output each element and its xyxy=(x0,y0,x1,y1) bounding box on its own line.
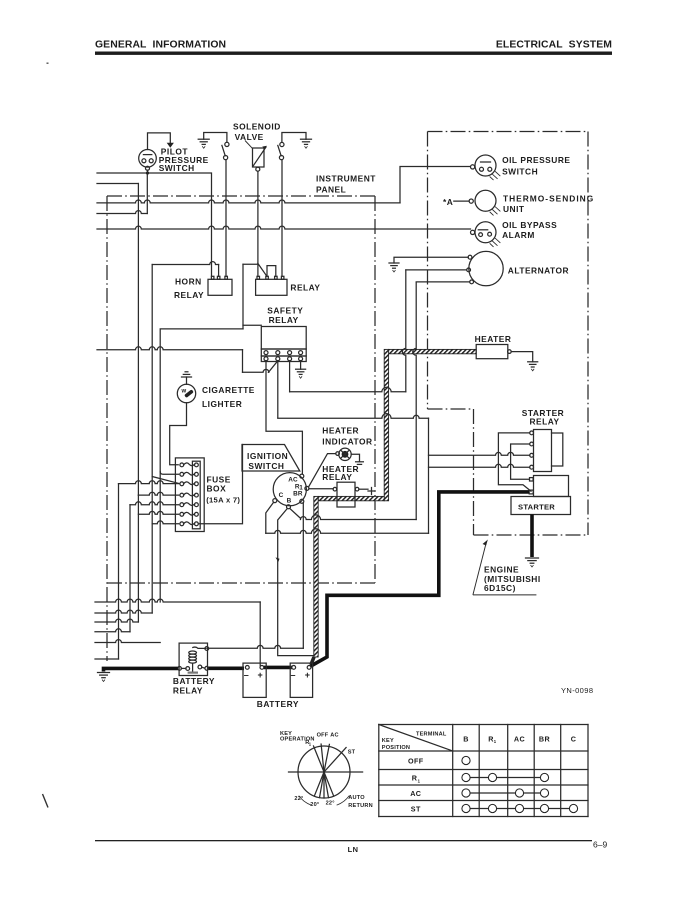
wire alternator top to ground xyxy=(394,257,468,263)
thermo-sending unit xyxy=(443,190,594,215)
svg-text:CIGARETTE: CIGARETTE xyxy=(202,385,255,395)
wire t4 branch xyxy=(429,464,530,467)
table contacts OFF row xyxy=(462,756,470,764)
svg-text:AC: AC xyxy=(410,789,421,798)
wire S2 stem down to relay pin 4 xyxy=(281,160,283,277)
wire relay pin1 junction + diagonal to pin2 + jumper pin2-pin3 xyxy=(243,263,276,276)
svg-text:STARTER: STARTER xyxy=(518,502,555,511)
wire safety b1 to ignition AC terminal xyxy=(266,361,302,474)
hatched cable end into battery2 + terminal xyxy=(311,657,314,665)
instrument panel boundary (chain line box) xyxy=(107,196,375,661)
wire fuse row3 diagonal feed from horn-pin2 vertical xyxy=(152,477,179,484)
svg-text:6D15C): 6D15C) xyxy=(484,583,516,593)
wire S2 to ground xyxy=(282,133,306,143)
wire bus2 (C common) to t3/t4 vertical xyxy=(266,529,429,534)
svg-text:RELAY: RELAY xyxy=(530,416,560,426)
svg-text:RELAY: RELAY xyxy=(269,315,299,325)
wire ignition B left branch down to battery2+ xyxy=(278,509,313,656)
wire ignition R1 to heater relay xyxy=(309,488,333,490)
wire ignition B right branch = bus1 to alternator xyxy=(290,509,301,519)
svg-text:IGNITION: IGNITION xyxy=(247,451,288,461)
svg-text:INSTRUMENT: INSTRUMENT xyxy=(316,174,376,184)
svg-text:SOLENOID: SOLENOID xyxy=(233,121,281,131)
svg-text:PANEL: PANEL xyxy=(316,185,346,195)
svg-text:ST: ST xyxy=(411,805,421,814)
svg-text:HEATER: HEATER xyxy=(322,426,359,436)
svg-text:AC: AC xyxy=(330,733,338,739)
svg-text:ALARM: ALARM xyxy=(502,230,535,240)
switch S1 xyxy=(222,142,229,159)
svg-text:6–9: 6–9 xyxy=(593,840,607,850)
wire heater indicator left to ignition R1 xyxy=(309,454,336,487)
svg-text:TERMINAL: TERMINAL xyxy=(416,731,447,737)
heater relay xyxy=(322,464,359,507)
svg-text:OFF: OFF xyxy=(408,757,424,766)
wire starter relay t1 to starter terminal xyxy=(498,433,531,491)
table contacts AC row xyxy=(466,792,545,794)
svg-text:22°: 22° xyxy=(326,801,335,807)
wire t3 branch xyxy=(429,452,530,455)
svg-text:THERMO-SENDING: THERMO-SENDING xyxy=(503,193,594,203)
starter xyxy=(511,476,571,515)
svg-text:20°: 20° xyxy=(310,802,319,808)
svg-text:UNIT: UNIT xyxy=(503,204,525,214)
thick cable starter ground xyxy=(530,515,534,558)
wire fuse row7 to ignition switch area xyxy=(198,445,242,524)
svg-text:RETURN: RETURN xyxy=(348,803,373,809)
thick cable battery1+ to battery2- xyxy=(264,666,292,670)
wire fuse row6 feed xyxy=(138,511,178,514)
svg-text:SWITCH: SWITCH xyxy=(159,163,195,173)
fuse box (15A x 7) xyxy=(175,458,240,532)
battery 2 xyxy=(290,663,312,697)
svg-text:KEY: KEY xyxy=(382,738,394,744)
svg-text:BR: BR xyxy=(539,734,551,743)
svg-text:INDICATOR: INDICATOR xyxy=(322,436,372,446)
safety relay xyxy=(261,305,306,361)
wire vertical down from horn pin2 corner xyxy=(151,265,153,614)
wire vertical from L2 down (fuse feed) xyxy=(137,184,139,496)
wire fuse row2 feed (from safety area vertical) xyxy=(160,472,179,475)
svg-text:YN-0098: YN-0098 xyxy=(561,686,593,695)
svg-text:–: – xyxy=(291,670,296,680)
wire fuse row3 feed long line to ladder xyxy=(119,481,179,484)
heater indicator xyxy=(322,426,372,461)
alternator xyxy=(467,251,569,285)
wire alternator bottom to bus1 vertical xyxy=(416,281,470,283)
page footer xyxy=(43,794,608,854)
wire bus B (to pilot switch) xyxy=(97,211,147,214)
svg-text:POSITION: POSITION xyxy=(382,745,410,751)
svg-text:LIGHTER: LIGHTER xyxy=(202,399,242,409)
hatched harness cable: vertical run at x386 xyxy=(384,349,388,500)
oil pressure switch xyxy=(471,155,571,180)
wire vertical fuse feeds continue to battery ladder xyxy=(137,495,139,622)
svg-text:BATTERY: BATTERY xyxy=(173,676,215,686)
wire ladder line b xyxy=(95,610,152,613)
svg-text:ELECTRICAL SYSTEM: ELECTRICAL SYSTEM xyxy=(496,40,612,51)
wire starter relay t2 to starter terminal xyxy=(511,444,530,479)
wire ladder line f xyxy=(95,658,119,660)
key operation dial xyxy=(280,731,373,809)
pilot pressure switch xyxy=(139,146,209,173)
svg-text:+: + xyxy=(305,670,310,680)
solenoid valve SV xyxy=(233,121,281,171)
svg-text:SWITCH: SWITCH xyxy=(248,461,284,471)
svg-text:LN: LN xyxy=(348,845,359,854)
svg-text:+: + xyxy=(258,670,263,680)
wire fuse row4 feed xyxy=(138,492,178,495)
thick battery positive cable battery2+ to starter xyxy=(310,492,529,667)
svg-text:RELAY: RELAY xyxy=(174,290,204,300)
svg-text:C: C xyxy=(279,492,284,499)
svg-text:VALVE: VALVE xyxy=(235,132,264,142)
heater xyxy=(475,334,512,359)
wire heater relay right to + tap xyxy=(359,488,368,490)
wire S1 to ground xyxy=(204,133,227,143)
wire ladder line d xyxy=(95,629,130,632)
wire heater indicator right to ground xyxy=(351,454,359,461)
ground (switch S1 feed) xyxy=(198,139,209,148)
svg-text:B: B xyxy=(463,734,469,743)
wire ladder line a (to battery1+) xyxy=(95,599,260,602)
svg-text:RELAY: RELAY xyxy=(290,282,320,292)
junction arrow mark on B wire xyxy=(276,557,280,562)
oil bypass alarm xyxy=(471,220,558,247)
ground (switch S2 feed) xyxy=(301,139,312,148)
svg-text:B: B xyxy=(287,497,292,504)
wire bus A (to oil pressure switch) xyxy=(97,200,400,203)
battery 1 xyxy=(243,663,266,697)
table contacts R1 row xyxy=(466,777,545,779)
wire safety b3 to alternator (via W3) xyxy=(289,361,291,392)
hatched harness cable: heater horizontal run xyxy=(389,349,477,353)
thick cable battery relay to ground xyxy=(104,668,178,671)
ignition switch xyxy=(273,473,309,509)
horn relay xyxy=(174,276,232,300)
starter relay xyxy=(522,408,564,471)
svg-text:C: C xyxy=(571,734,577,743)
svg-text:SAFETY: SAFETY xyxy=(267,305,303,315)
svg-text:HORN: HORN xyxy=(175,276,202,286)
svg-text:–: – xyxy=(244,670,249,680)
ignition switch label callout box xyxy=(242,445,300,472)
svg-text:ALTERNATOR: ALTERNATOR xyxy=(508,265,569,275)
table contacts ST row xyxy=(466,808,574,810)
junction L1 x pilot stem xyxy=(146,171,149,174)
relay (instrument panel relay) xyxy=(256,276,321,295)
svg-text:RELAY: RELAY xyxy=(322,472,352,482)
wire ladder line c xyxy=(95,619,138,622)
wire bus C (to oil bypass alarm) xyxy=(97,226,471,229)
svg-text:ST: ST xyxy=(348,750,356,756)
hatched harness cable: vertical run to battery xyxy=(314,496,318,657)
svg-text:HEATER: HEATER xyxy=(475,334,512,344)
hatched harness cable: horizontal run y498 xyxy=(318,496,384,500)
svg-text:*A: *A xyxy=(443,197,453,207)
svg-text:OIL BYPASS: OIL BYPASS xyxy=(502,220,557,230)
ground (cigarette lighter) xyxy=(186,377,188,384)
ground (starter cable) xyxy=(526,558,539,567)
wire cigarette lighter to fuse row1 xyxy=(170,403,187,465)
wire alternator mid to W3 vertical xyxy=(406,269,467,271)
svg-text:AC: AC xyxy=(514,734,525,743)
cigarette lighter xyxy=(177,384,255,409)
wire main feed bus to safety relay b2 xyxy=(97,347,243,350)
wire L1 feed bus to horn relay pin1 xyxy=(97,173,212,276)
svg-text:22°: 22° xyxy=(294,796,303,802)
wire ladder line e xyxy=(95,640,160,643)
wire L2 feed xyxy=(97,183,138,185)
key position / terminal table xyxy=(379,725,588,817)
svg-text:BR: BR xyxy=(293,490,303,497)
svg-text:AUTO: AUTO xyxy=(348,795,365,801)
svg-text:BOX: BOX xyxy=(207,483,227,493)
wire safety b2 down and right to starter relay t3 xyxy=(277,361,279,418)
engine boundary (chain line box) xyxy=(428,132,589,536)
page header xyxy=(47,40,613,64)
wire ignition BR down to battery relay xyxy=(302,503,304,648)
svg-text:BATTERY: BATTERY xyxy=(257,699,299,709)
battery relay xyxy=(173,643,215,696)
svg-text:w: w xyxy=(181,388,187,394)
wire fuse row5 feed xyxy=(130,502,179,505)
svg-text:GENERAL INFORMATION: GENERAL INFORMATION xyxy=(95,40,226,51)
svg-text:OFF: OFF xyxy=(317,733,329,739)
wire horn relay pin2 feed from left xyxy=(152,262,218,265)
node INSTRUMENT PANEL label xyxy=(316,174,376,195)
wire from relay junction down-left to safety relay and fuse row2 xyxy=(160,264,261,602)
svg-text:SWITCH: SWITCH xyxy=(502,167,538,177)
svg-text:(15A x 7): (15A x 7) xyxy=(206,496,240,505)
ground (battery relay) xyxy=(98,673,110,682)
svg-text:RELAY: RELAY xyxy=(173,686,203,696)
wire ignition C to bus2 xyxy=(266,502,274,533)
thick cable battery relay to battery1- xyxy=(181,667,186,669)
wire pilot switch feed with arrow xyxy=(148,133,174,150)
ground (safety relay terminal b4) xyxy=(300,361,302,369)
node ENGINE (MITSUBISHI 6D15C) label with leader arrow xyxy=(473,541,541,595)
wire S1 stem down to horn relay pin 3 xyxy=(225,160,227,277)
wire heater right to ground xyxy=(511,352,533,362)
switch S2 xyxy=(278,142,284,159)
wire fuse row7 feed xyxy=(152,521,179,524)
svg-text:OIL PRESSURE: OIL PRESSURE xyxy=(502,155,570,165)
wire solenoid stem down to relay junction xyxy=(257,171,259,263)
